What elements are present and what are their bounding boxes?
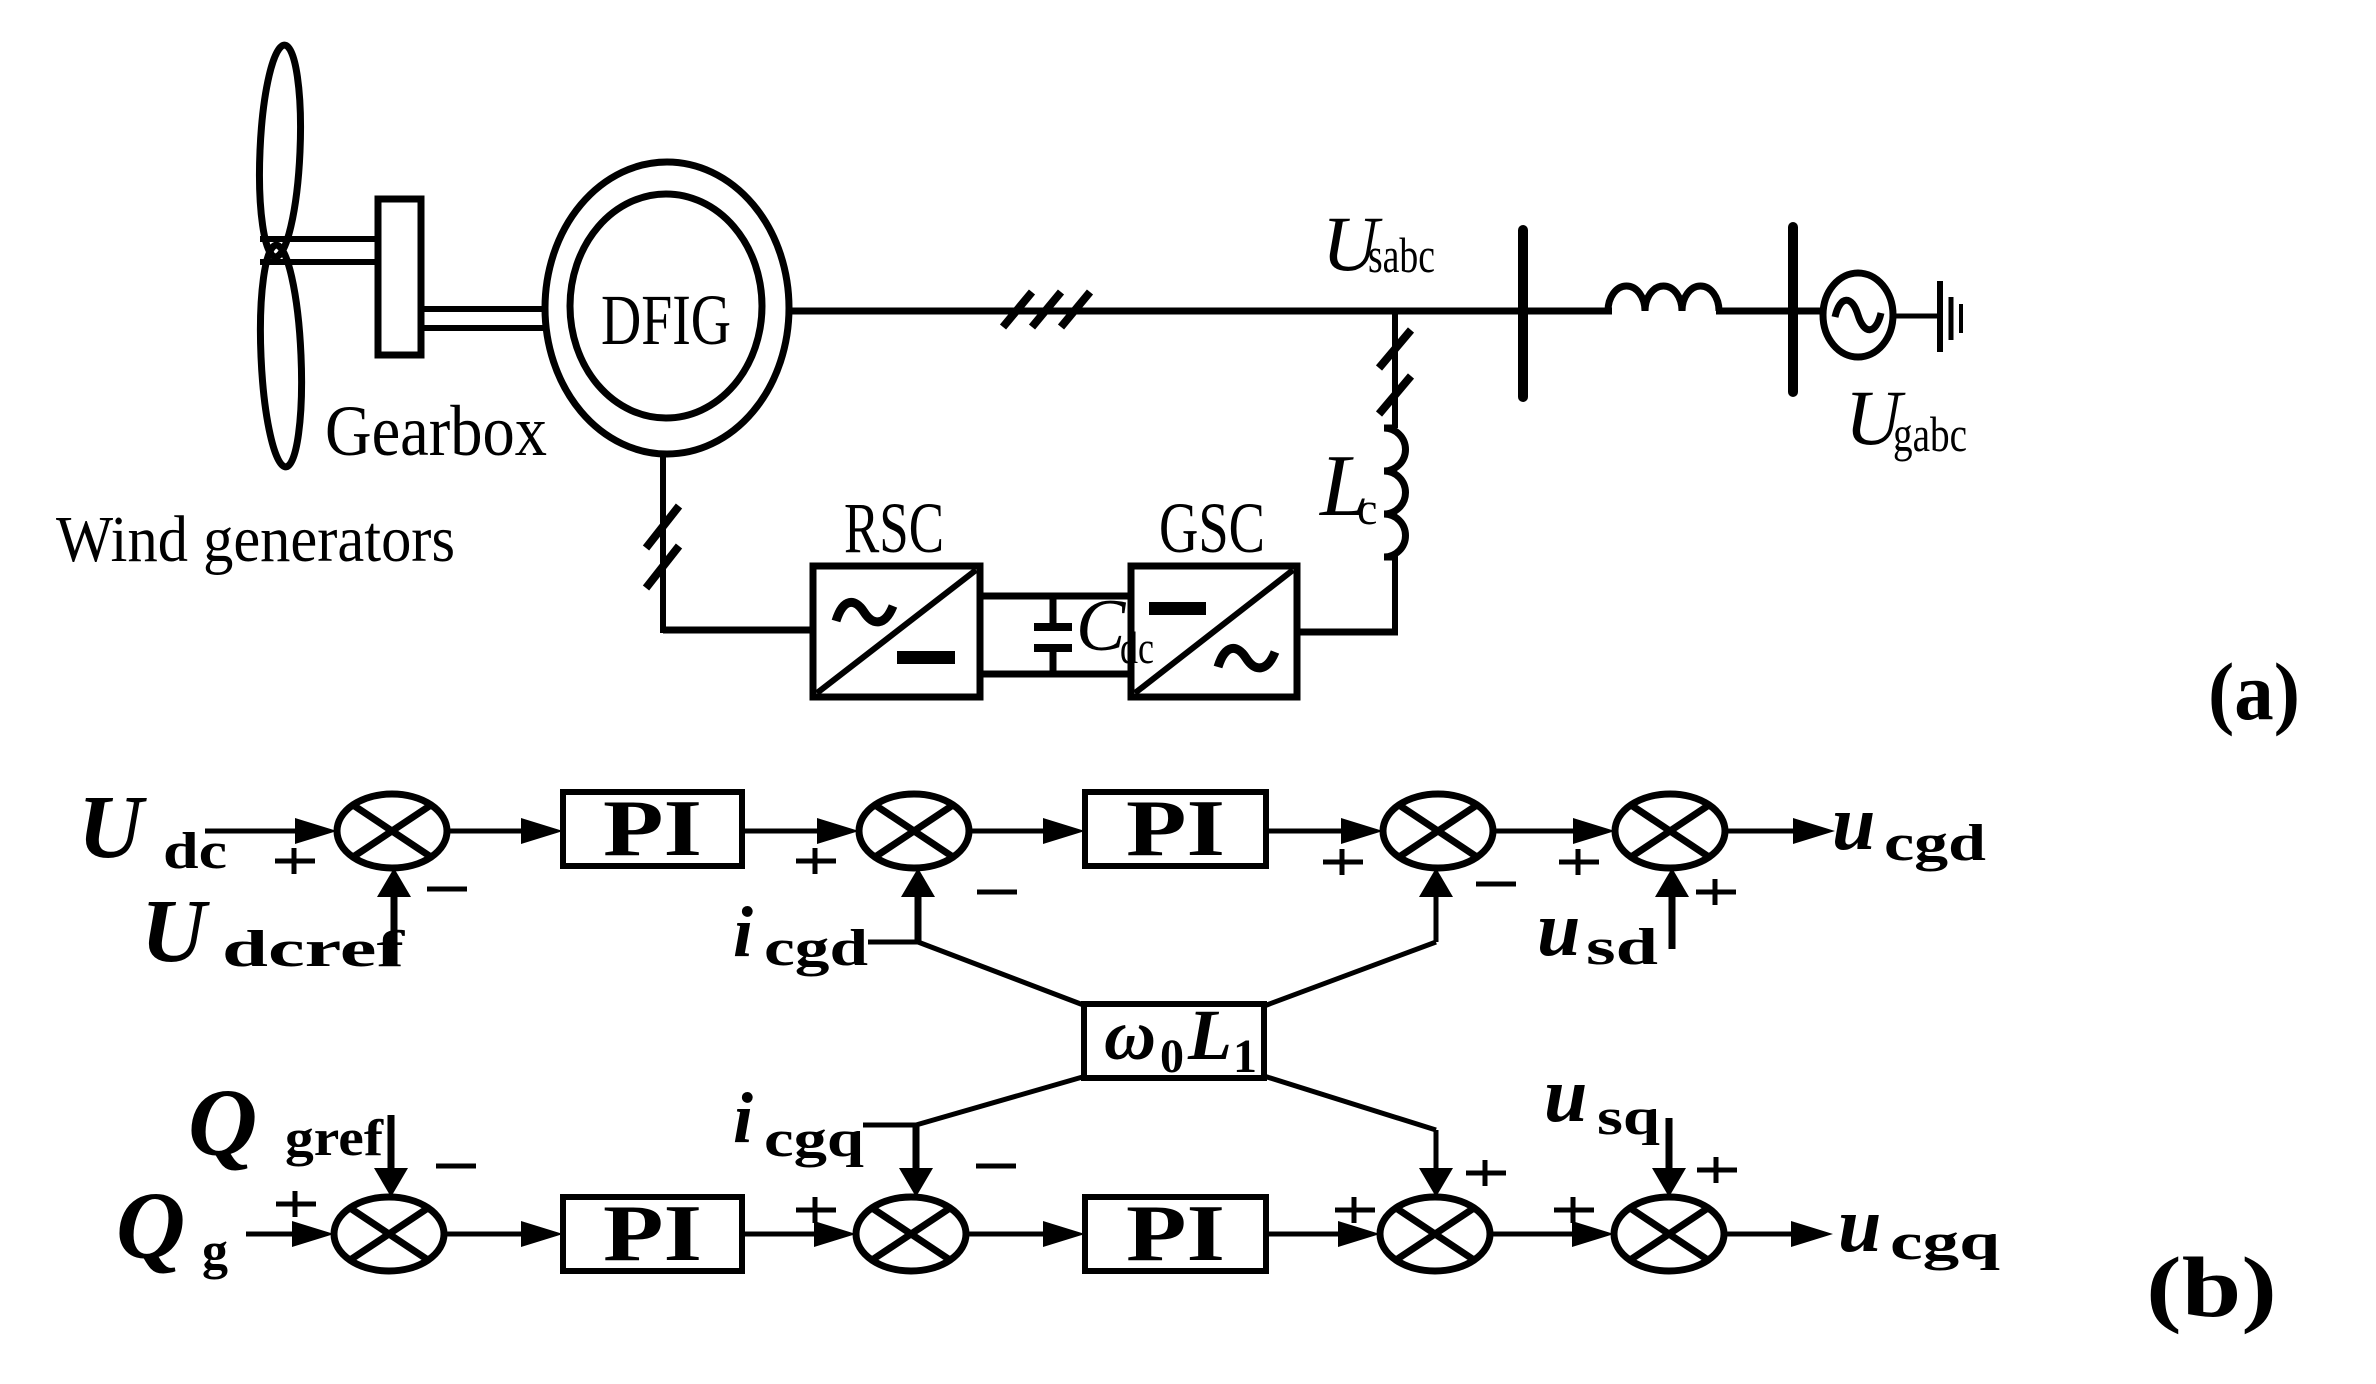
inductor Lc coil bbox=[1384, 428, 1406, 557]
ground bbox=[1937, 281, 1943, 352]
w0L1 down arrow into S3b bbox=[1434, 1130, 1439, 1172]
wire S1b to PI1b bbox=[444, 1232, 525, 1237]
plus sign at S4b input bbox=[1554, 1197, 1594, 1223]
Qgref down arrow into S1b bbox=[388, 1115, 395, 1172]
wire PI1b to S2b bbox=[742, 1232, 820, 1237]
output wire ucgd bbox=[1725, 829, 1795, 834]
usd up arrow into S4 bbox=[1669, 890, 1676, 949]
svg-text:i: i bbox=[733, 1078, 753, 1158]
plus sign at S2b input bbox=[796, 1197, 836, 1223]
summing junction S3 bbox=[1383, 794, 1493, 868]
svg-text:DFIG: DFIG bbox=[601, 280, 731, 360]
svg-text:cgd: cgd bbox=[764, 920, 868, 977]
svg-text:Q: Q bbox=[188, 1069, 257, 1176]
usq down arrow into S4b bbox=[1666, 1118, 1673, 1172]
wind turbine blade upper bbox=[255, 44, 304, 258]
svg-text:gabc: gabc bbox=[1893, 406, 1967, 462]
svg-text:PI: PI bbox=[1126, 785, 1225, 873]
block PI1 bbox=[563, 792, 742, 866]
svg-text:(a): (a) bbox=[2208, 646, 2300, 737]
svg-text:g: g bbox=[202, 1223, 228, 1280]
wire Udc to sum1 bbox=[205, 829, 300, 834]
svg-text:U: U bbox=[141, 882, 210, 981]
wire rotor to RSC bbox=[663, 627, 816, 634]
svg-text:i: i bbox=[733, 892, 753, 972]
svg-text:sq: sq bbox=[1597, 1089, 1660, 1146]
svg-text:GSC: GSC bbox=[1159, 488, 1265, 568]
wire S2b to PI2b bbox=[966, 1232, 1047, 1237]
svg-text:Wind generators: Wind generators bbox=[56, 503, 455, 576]
svg-text:cgd: cgd bbox=[1884, 815, 1986, 872]
wire S2 to PI2 bbox=[969, 829, 1047, 834]
block w0L1 bbox=[1084, 1004, 1264, 1078]
svg-text:cgq: cgq bbox=[1890, 1214, 2000, 1271]
summing junction S4b bbox=[1614, 1197, 1724, 1271]
summing junction S2 bbox=[859, 794, 969, 868]
svg-text:ω: ω bbox=[1104, 995, 1156, 1075]
minus sign at S1 bbox=[427, 887, 467, 892]
bus bar 1 bbox=[1518, 230, 1528, 397]
plus sign at S3b vertical input bbox=[1466, 1160, 1506, 1186]
Udcref up arrow into S1 bbox=[391, 890, 398, 966]
plus sign at sum3 input bbox=[1323, 849, 1363, 875]
summing junction S1b bbox=[334, 1197, 444, 1271]
bus bar 2 bbox=[1788, 227, 1798, 392]
w0L1 up arrow into S3 bbox=[1434, 890, 1439, 942]
block PI1b bbox=[563, 1197, 742, 1271]
svg-text:u: u bbox=[1537, 885, 1580, 972]
wire GSC to choke bbox=[1297, 629, 1398, 636]
svg-text:PI: PI bbox=[1126, 1190, 1225, 1278]
plus sign at sum4 input bbox=[1559, 849, 1599, 875]
svg-text:sabc: sabc bbox=[1368, 227, 1435, 283]
svg-text:sd: sd bbox=[1586, 919, 1658, 976]
plus sign at S4 vertical input bbox=[1696, 879, 1736, 905]
summing junction S3b bbox=[1380, 1197, 1490, 1271]
minus sign at S1b bbox=[436, 1164, 476, 1169]
converter GSC box bbox=[1131, 566, 1297, 697]
svg-text:u: u bbox=[1832, 779, 1875, 866]
svg-text:1: 1 bbox=[1233, 1030, 1257, 1083]
plus sign at sum1 input bbox=[275, 848, 315, 874]
wire icgq horizontal bbox=[863, 1123, 916, 1128]
wire S3b to S4b bbox=[1490, 1232, 1576, 1237]
block PI2 bbox=[1085, 792, 1266, 866]
svg-text:PI: PI bbox=[603, 785, 702, 873]
dc-link wires between RSC and GSC bbox=[980, 593, 1131, 600]
wire icgd horizontal bbox=[868, 940, 918, 945]
wire PI2 to sum3 bbox=[1266, 829, 1345, 834]
low-speed shaft (hub to gearbox) bbox=[260, 236, 380, 242]
three-phase slashes on stator wire bbox=[1003, 292, 1032, 327]
crossover diagonal icgd to w0L1 bbox=[918, 942, 1086, 1006]
high-speed shaft (gearbox to DFIG) bbox=[421, 306, 560, 312]
svg-text:U: U bbox=[78, 778, 147, 877]
generator DFIG outer circle bbox=[545, 162, 789, 454]
stator main wire bbox=[788, 308, 1612, 315]
converter RSC box bbox=[813, 566, 980, 697]
crossover diagonal w0L1 to S3b bbox=[1264, 1076, 1436, 1130]
minus sign at S3 bbox=[1476, 882, 1516, 887]
wire Qg to S1b bbox=[246, 1232, 296, 1237]
svg-text:dc: dc bbox=[1120, 622, 1154, 673]
summing junction S1 bbox=[337, 794, 447, 868]
plus sign at S1b input bbox=[276, 1191, 316, 1217]
gearbox bbox=[378, 199, 421, 355]
plus sign at S3b input bbox=[1335, 1197, 1375, 1223]
crossover diagonal icgq to w0L1 bbox=[916, 1076, 1086, 1125]
wire S1 to PI1 bbox=[447, 829, 525, 834]
svg-text:u: u bbox=[1838, 1181, 1881, 1268]
capacitor Cdc bbox=[1050, 596, 1057, 624]
slashes on rotor wire bbox=[646, 506, 679, 548]
summing junction S4 bbox=[1615, 794, 1725, 868]
block PI2b bbox=[1085, 1197, 1266, 1271]
svg-text:L: L bbox=[1187, 995, 1232, 1075]
svg-text:(b): (b) bbox=[2146, 1239, 2277, 1335]
svg-text:RSC: RSC bbox=[844, 488, 944, 568]
icgq down arrow into S2b bbox=[913, 1125, 920, 1172]
svg-text:cgq: cgq bbox=[764, 1111, 864, 1168]
svg-text:gref: gref bbox=[285, 1110, 384, 1167]
wire source to ground bbox=[1893, 314, 1938, 319]
generator DFIG inner circle bbox=[570, 194, 762, 418]
output wire ucgq bbox=[1724, 1232, 1793, 1237]
svg-text:0: 0 bbox=[1160, 1030, 1184, 1083]
crossover diagonal w0L1 to S3 bbox=[1264, 942, 1436, 1006]
vertical branch wire from Usabc node bbox=[1392, 311, 1398, 428]
svg-text:PI: PI bbox=[603, 1190, 702, 1278]
wire PI1 to sum2 bbox=[742, 829, 823, 834]
slashes on branch wire bbox=[1379, 330, 1411, 368]
svg-text:dcref: dcref bbox=[222, 921, 405, 978]
line inductor (transformer) bbox=[1608, 286, 1719, 311]
wind turbine blade lower bbox=[256, 244, 306, 468]
wire S3 to sum4 bbox=[1493, 829, 1577, 834]
rotor wire from DFIG bottom bbox=[660, 452, 666, 633]
minus sign at S2b bbox=[976, 1164, 1016, 1169]
plus sign at sum2 input bbox=[796, 848, 836, 874]
icgd up arrow into S2 bbox=[915, 890, 922, 942]
svg-text:u: u bbox=[1544, 1051, 1587, 1138]
wire PI2b to S3b bbox=[1266, 1232, 1342, 1237]
svg-text:Gearbox: Gearbox bbox=[325, 391, 547, 471]
summing junction S2b bbox=[856, 1197, 966, 1271]
grid source Ugabc bbox=[1823, 273, 1893, 357]
svg-text:c: c bbox=[1357, 483, 1377, 534]
plus sign at S4b vertical input bbox=[1697, 1157, 1737, 1183]
minus sign at S2 bbox=[977, 890, 1017, 895]
svg-text:Q: Q bbox=[116, 1172, 185, 1279]
